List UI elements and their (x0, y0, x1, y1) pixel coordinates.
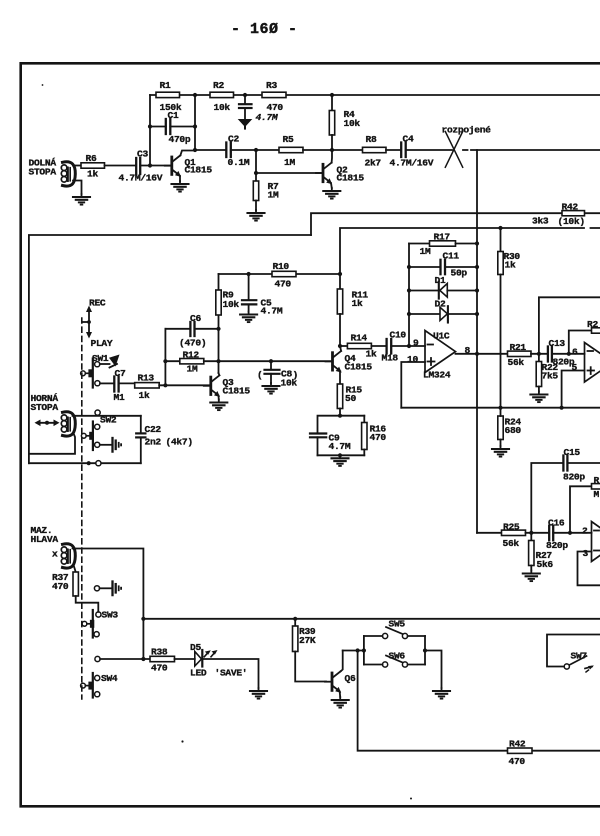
svg-text:56k: 56k (508, 357, 525, 368)
svg-text:1k: 1k (87, 169, 98, 180)
svg-text:(470): (470) (179, 338, 206, 349)
ground sideways SW3 (113, 582, 122, 596)
svg-text:10k: 10k (214, 102, 231, 113)
wire vertical C1 right (194, 95, 196, 150)
capacitor C4 (390, 134, 434, 169)
svg-text:C3: C3 (137, 149, 148, 160)
capacitor C16 (546, 518, 592, 552)
svg-text:56k: 56k (503, 538, 520, 549)
svg-text:D5: D5 (190, 642, 201, 653)
wire (119, 382, 135, 384)
capacitor C1 (150, 110, 195, 145)
wire vertical R9-Q3 (218, 274, 220, 373)
resistor R24 (498, 408, 522, 446)
node (567, 352, 571, 356)
svg-text:2: 2 (582, 526, 588, 537)
switch SW1 (81, 353, 120, 388)
node (293, 617, 297, 621)
ground under tank (332, 455, 349, 466)
svg-text:SW4: SW4 (101, 673, 118, 684)
svg-text:3k3: 3k3 (532, 216, 549, 227)
node (537, 352, 541, 356)
wire U1C output (456, 353, 508, 355)
svg-text:U1C: U1C (433, 331, 450, 342)
wire bus y618 (143, 618, 600, 620)
wire (73, 165, 81, 167)
node (407, 344, 411, 348)
resistor R28 partial (587, 319, 600, 333)
switch SW3 contact mid (94, 586, 111, 591)
stray mark (181, 740, 183, 742)
resistor R42 (532, 202, 585, 228)
resistor R8 (363, 134, 387, 169)
node (87, 461, 91, 465)
svg-text:C1815: C1815 (185, 165, 213, 176)
top rail (150, 94, 600, 96)
node (148, 163, 152, 167)
ground under LED (250, 688, 267, 699)
ground under R7 (248, 210, 265, 221)
svg-text:C4: C4 (403, 134, 414, 145)
svg-text:(: ( (257, 370, 262, 381)
svg-text:M18: M18 (382, 353, 399, 364)
svg-text:4.7M: 4.7M (329, 441, 351, 452)
transistor Q4 (326, 346, 373, 384)
svg-text:(10k): (10k) (558, 216, 585, 227)
node (475, 312, 479, 316)
svg-text:R8: R8 (366, 134, 377, 145)
capacitor C2 (226, 134, 250, 169)
wire Q3 base (159, 384, 209, 386)
svg-text:50: 50 (345, 393, 356, 404)
node (568, 531, 572, 535)
resistor R5 (279, 134, 303, 168)
svg-text:R: R (594, 475, 600, 486)
node (498, 406, 502, 410)
op-amp U1E partial (582, 522, 600, 562)
node (475, 288, 479, 292)
resistor R10 (272, 261, 296, 290)
svg-text:R10: R10 (273, 261, 290, 272)
wire Q4 base line (219, 360, 332, 362)
svg-text:1k: 1k (366, 349, 377, 360)
svg-text:HLAVA: HLAVA (31, 534, 59, 545)
wire SW box left vertical (363, 636, 365, 665)
transistor Q3 (204, 373, 251, 400)
wire (231, 149, 279, 151)
resistor R27 (529, 533, 554, 571)
wire C2 line (195, 149, 226, 151)
svg-text:REC: REC (89, 298, 106, 309)
ground sideways SW2 (113, 438, 122, 452)
wire left feedback vertical (408, 244, 410, 347)
svg-text:R38: R38 (151, 647, 168, 658)
C9 R16 tank top wire (318, 416, 365, 433)
wire (332, 149, 363, 151)
svg-text:'SAVE': 'SAVE' (215, 668, 248, 679)
tape head upper track (29, 412, 75, 454)
node (338, 272, 342, 276)
svg-text:820p: 820p (563, 472, 585, 483)
transistor Q1 (165, 151, 213, 182)
svg-text:C6: C6 (190, 313, 201, 324)
switch SW3 (82, 610, 118, 638)
wire SW5 SW6 left stub (343, 650, 364, 652)
resistor R42 bottom (508, 739, 533, 768)
svg-text:rozpojené: rozpojené (442, 125, 492, 136)
resistor R25 (502, 522, 549, 550)
node (247, 272, 251, 276)
resistor R11 (337, 274, 368, 346)
node R38 input terminal (95, 656, 150, 661)
node (423, 648, 427, 652)
wire (303, 149, 332, 151)
svg-text:1M: 1M (187, 364, 198, 375)
wire SW box right vertical (424, 636, 426, 665)
svg-text:R14: R14 (351, 333, 368, 344)
transistor Q2 (316, 150, 364, 188)
X mark rozpojene (442, 125, 492, 168)
svg-text:C16: C16 (548, 518, 565, 529)
svg-text:50p: 50p (451, 268, 468, 279)
switch SW2 terminal top (95, 410, 100, 415)
svg-text:R42: R42 (509, 739, 526, 750)
resistor R2 (210, 80, 234, 113)
node (330, 93, 334, 97)
node (475, 352, 479, 356)
capacitor C11 (409, 251, 477, 279)
node (163, 359, 167, 363)
capacitor 4.7M decoupling (239, 95, 252, 119)
svg-text:SW2: SW2 (100, 415, 117, 426)
svg-text:7k5: 7k5 (542, 371, 559, 382)
node (216, 359, 220, 363)
ground under Q6 (332, 697, 349, 708)
wire (140, 165, 170, 167)
wire R37 to SW3 (76, 596, 99, 612)
node (163, 383, 167, 387)
capacitor C6 (165, 313, 218, 349)
svg-text:(4k7): (4k7) (166, 437, 193, 448)
wire dashed mechanical link (81, 318, 83, 699)
svg-text:R2: R2 (587, 319, 598, 330)
node (148, 124, 152, 128)
svg-text:R13: R13 (138, 373, 155, 384)
ground under Q2 (323, 188, 340, 199)
svg-text:2n2: 2n2 (145, 437, 162, 448)
wire Q2 base (256, 172, 322, 174)
resistor R7 (253, 181, 279, 210)
wire U1C plus input (401, 362, 425, 408)
ground under C5 (240, 312, 257, 323)
svg-text:R12: R12 (183, 350, 200, 361)
diode D1 (409, 275, 477, 299)
svg-text:C15: C15 (564, 447, 581, 458)
wire to ground (425, 651, 442, 689)
svg-text:PLAY: PLAY (91, 338, 113, 349)
resistor R14 (340, 333, 386, 360)
node (141, 617, 145, 621)
svg-text:D2: D2 (435, 299, 446, 310)
wire head to bottom bus (73, 549, 144, 660)
capacitor C15 (531, 447, 600, 533)
resistor R16 (362, 416, 387, 456)
op-amp U1C (407, 331, 471, 381)
wire LED to ground (202, 659, 258, 688)
node (243, 93, 247, 97)
wire U1D plus input (562, 371, 585, 408)
ground under Q1 (172, 181, 189, 192)
svg-text:SW7: SW7 (571, 651, 588, 662)
svg-text:1k: 1k (505, 260, 516, 271)
svg-text:SW5: SW5 (389, 619, 406, 630)
node (560, 406, 564, 410)
resistor R22 (536, 354, 558, 392)
svg-text:1k: 1k (352, 298, 363, 309)
resistor R38 (150, 647, 195, 674)
svg-text:0.1M: 0.1M (228, 157, 250, 168)
svg-text:C13: C13 (549, 338, 566, 349)
node (475, 241, 479, 245)
svg-text:M: M (594, 489, 600, 500)
wire R7 vertical (255, 150, 257, 181)
capacitor C10 (382, 330, 410, 364)
C9 R16 bottom wire (318, 454, 365, 456)
svg-text:C1815: C1815 (223, 386, 251, 397)
wire U1D feedback top (539, 297, 600, 354)
wire R28 tap (569, 331, 592, 354)
svg-text:C1815: C1815 (345, 362, 373, 373)
switch SW2 (81, 415, 117, 451)
svg-text:1k: 1k (139, 390, 150, 401)
svg-text:1M: 1M (284, 157, 295, 168)
svg-text:x: x (52, 549, 58, 560)
wire (105, 165, 136, 167)
svg-text:C7: C7 (115, 368, 126, 379)
svg-text:10k: 10k (223, 299, 240, 310)
switch SW6 (364, 650, 425, 667)
resistor R21 (508, 342, 548, 368)
svg-text:1M: 1M (420, 246, 431, 257)
node (407, 312, 411, 316)
wire long vertical feedback column (476, 150, 478, 533)
wire left vertical R1/C1 (149, 95, 151, 166)
node (193, 93, 197, 97)
node (362, 648, 366, 652)
svg-text:R21: R21 (510, 342, 527, 353)
switch SW7 (547, 635, 600, 673)
svg-text:R2: R2 (213, 80, 224, 91)
wire left feedback vertical (164, 329, 166, 386)
resistor R12 (165, 350, 218, 375)
capacitor C22 (136, 416, 193, 463)
capacitor C8 with parens (257, 359, 298, 388)
wire (477, 149, 600, 151)
node (141, 657, 145, 661)
wire bus y407 (401, 407, 600, 409)
capacitor C7 (100, 368, 126, 403)
node (529, 531, 533, 535)
wire bus y213 (311, 213, 600, 235)
wire U1E feedback (570, 486, 592, 533)
svg-text:Q6: Q6 (345, 673, 356, 684)
resistor R9 (216, 290, 240, 316)
svg-text:R6: R6 (86, 153, 97, 164)
svg-text:10k: 10k (281, 378, 298, 389)
ground under R27 (523, 571, 540, 582)
wire U1C minus input (409, 345, 425, 347)
node HORNA STOPA label (31, 393, 59, 413)
resistor R29 partial (592, 475, 600, 500)
node (254, 148, 258, 152)
node REC PLAY selector (82, 298, 113, 350)
ground under R24 (492, 446, 509, 457)
resistor R13 (135, 373, 160, 402)
diode D2 (409, 299, 477, 323)
svg-text:4.7M: 4.7M (256, 112, 279, 123)
svg-text:1M: 1M (268, 190, 279, 201)
node (330, 148, 334, 152)
svg-text:R3: R3 (266, 80, 277, 91)
svg-text:C1815: C1815 (337, 173, 365, 184)
ground under C8 (263, 383, 280, 394)
capacitor C13 (548, 338, 585, 368)
wire bus y235 (29, 235, 311, 463)
wire head top to C22 (73, 415, 141, 417)
svg-text:R42: R42 (562, 202, 579, 213)
svg-text:4.7M/16V: 4.7M/16V (119, 173, 163, 184)
ground under head (73, 194, 90, 205)
node DOLNA STOPA label (29, 158, 57, 178)
svg-text:C22: C22 (145, 424, 162, 435)
svg-text:M1: M1 (114, 392, 125, 403)
svg-text:2k7: 2k7 (365, 158, 382, 169)
svg-text:R5: R5 (283, 134, 294, 145)
capacitor C5 (242, 274, 283, 317)
resistor R3 (262, 80, 286, 113)
switch SW4 (81, 673, 118, 698)
resistor R15 (337, 384, 362, 416)
tape head lower track (61, 162, 81, 194)
erase head (61, 544, 75, 572)
ground under Q3 (210, 400, 227, 411)
node (338, 414, 342, 418)
svg-text:470: 470 (370, 432, 387, 443)
wire U1E plus input (578, 552, 600, 586)
node (407, 265, 411, 269)
op-amp U1D partial (572, 343, 600, 383)
svg-text:- 16Ø -: - 16Ø - (231, 21, 298, 38)
switch SW5 (364, 619, 425, 639)
wire y274 (219, 273, 341, 275)
svg-text:470: 470 (52, 581, 69, 592)
node (338, 453, 342, 457)
svg-text:10k: 10k (344, 118, 361, 129)
svg-text:C2: C2 (228, 134, 239, 145)
svg-text:4.7M/16V: 4.7M/16V (390, 158, 434, 169)
svg-text:LM324: LM324 (423, 370, 451, 381)
svg-text:R1: R1 (160, 80, 171, 91)
svg-text:SW3: SW3 (102, 610, 119, 621)
svg-text:470: 470 (275, 279, 292, 290)
wire (406, 149, 452, 151)
svg-text:C11: C11 (443, 251, 460, 262)
node (193, 124, 197, 128)
svg-text:R17: R17 (434, 232, 451, 243)
wire (386, 149, 401, 151)
wire long vertical to R42 (358, 651, 600, 751)
ground filled triangle (238, 119, 253, 127)
wire R30 to bus (500, 354, 502, 408)
resistor R39 (293, 619, 316, 652)
resistor R6 (81, 153, 105, 180)
svg-text:LED: LED (190, 668, 207, 679)
ground under SW box (433, 688, 450, 699)
svg-text:STOPA: STOPA (29, 167, 57, 178)
resistor R4 (329, 95, 360, 150)
svg-text:C10: C10 (390, 330, 407, 341)
svg-text:6: 6 (572, 347, 578, 358)
node (216, 327, 220, 331)
svg-text:470: 470 (151, 663, 168, 674)
LED D5 (190, 642, 247, 679)
svg-text:470: 470 (267, 102, 284, 113)
svg-text:C1: C1 (168, 110, 179, 121)
head azimuth arrow (35, 420, 60, 427)
capacitor C9 (310, 433, 351, 456)
svg-text:680: 680 (505, 425, 522, 436)
svg-text:R25: R25 (503, 522, 520, 533)
resistor R37 (52, 572, 78, 596)
transistor Q6 (325, 651, 356, 698)
wire bus y228 (340, 228, 600, 274)
wire bottom common (29, 462, 141, 464)
svg-text:STOPA: STOPA (31, 402, 59, 413)
node (254, 171, 258, 175)
svg-text:10: 10 (407, 354, 418, 365)
wire R25 line (477, 532, 502, 534)
stray mark (42, 84, 44, 86)
capacitor C3 (119, 149, 163, 184)
node (338, 344, 342, 348)
stray mark (410, 798, 412, 800)
svg-text:3: 3 (583, 548, 589, 559)
svg-text:470: 470 (509, 756, 526, 767)
ground under R22 (530, 392, 547, 403)
resistor R30 (498, 228, 521, 354)
wire R39 to Q6 base (295, 652, 326, 682)
node (498, 226, 502, 230)
svg-text:5k6: 5k6 (537, 559, 554, 570)
node (475, 265, 479, 269)
resistor R1 (156, 80, 182, 113)
svg-text:27K: 27K (299, 635, 316, 646)
node (407, 288, 411, 292)
node (193, 148, 197, 152)
svg-text:4.7M: 4.7M (261, 306, 283, 317)
node MAZ HLAVA label (31, 525, 59, 545)
svg-text:470p: 470p (169, 134, 191, 145)
node (356, 648, 360, 652)
resistor R17 (409, 232, 477, 258)
switch SW2 terminal bottom (96, 461, 101, 466)
svg-text:D1: D1 (435, 275, 446, 286)
wire dashed (463, 149, 477, 151)
